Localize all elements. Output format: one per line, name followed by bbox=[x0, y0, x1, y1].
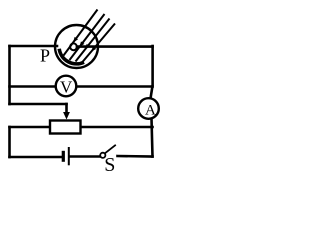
ammeter A bbox=[138, 98, 159, 119]
light ray 4 bbox=[82, 24, 115, 63]
wire left vertical upper bbox=[8, 46, 11, 104]
switch S pivot bbox=[100, 153, 105, 158]
wire right vertical upper bbox=[151, 46, 154, 87]
light ray 2 bbox=[70, 14, 105, 60]
wire right vertical lower bbox=[152, 119, 153, 157]
battery cell positive plate bbox=[68, 147, 70, 165]
wire slider vertical into arrow bbox=[65, 104, 68, 113]
svg-text:S: S bbox=[104, 154, 115, 176]
wire top-left horizontal bbox=[10, 45, 58, 48]
phototube cathode plate bbox=[59, 49, 84, 64]
light ray 1 bbox=[64, 10, 98, 56]
wire right vertical to ammeter bbox=[151, 87, 153, 99]
voltmeter V bbox=[56, 76, 77, 97]
wire top-right horizontal (anode lead to right corner) bbox=[77, 45, 153, 48]
wire bottom to battery bbox=[10, 156, 62, 159]
phototube anode bbox=[70, 43, 77, 50]
wire switch to right corner bbox=[118, 155, 153, 158]
wire rheostat right bbox=[81, 126, 153, 129]
light ray 3 bbox=[76, 19, 110, 62]
wire rheostat left bbox=[10, 126, 51, 129]
svg-text:V: V bbox=[60, 77, 73, 96]
svg-text:A: A bbox=[145, 102, 156, 118]
wire voltmeter branch right bbox=[77, 85, 153, 88]
wire voltmeter branch left bbox=[10, 85, 57, 88]
switch S lever bbox=[105, 145, 116, 154]
rheostat R body bbox=[50, 121, 81, 134]
rheostat slider arrow bbox=[63, 112, 70, 120]
wire left vertical lower bbox=[8, 127, 11, 157]
wire slider horizontal bbox=[10, 103, 67, 106]
svg-text:P: P bbox=[40, 46, 50, 66]
wire battery to switch bbox=[71, 155, 101, 158]
battery cell negative plate bbox=[62, 151, 65, 162]
phototube P envelope bbox=[55, 25, 98, 68]
